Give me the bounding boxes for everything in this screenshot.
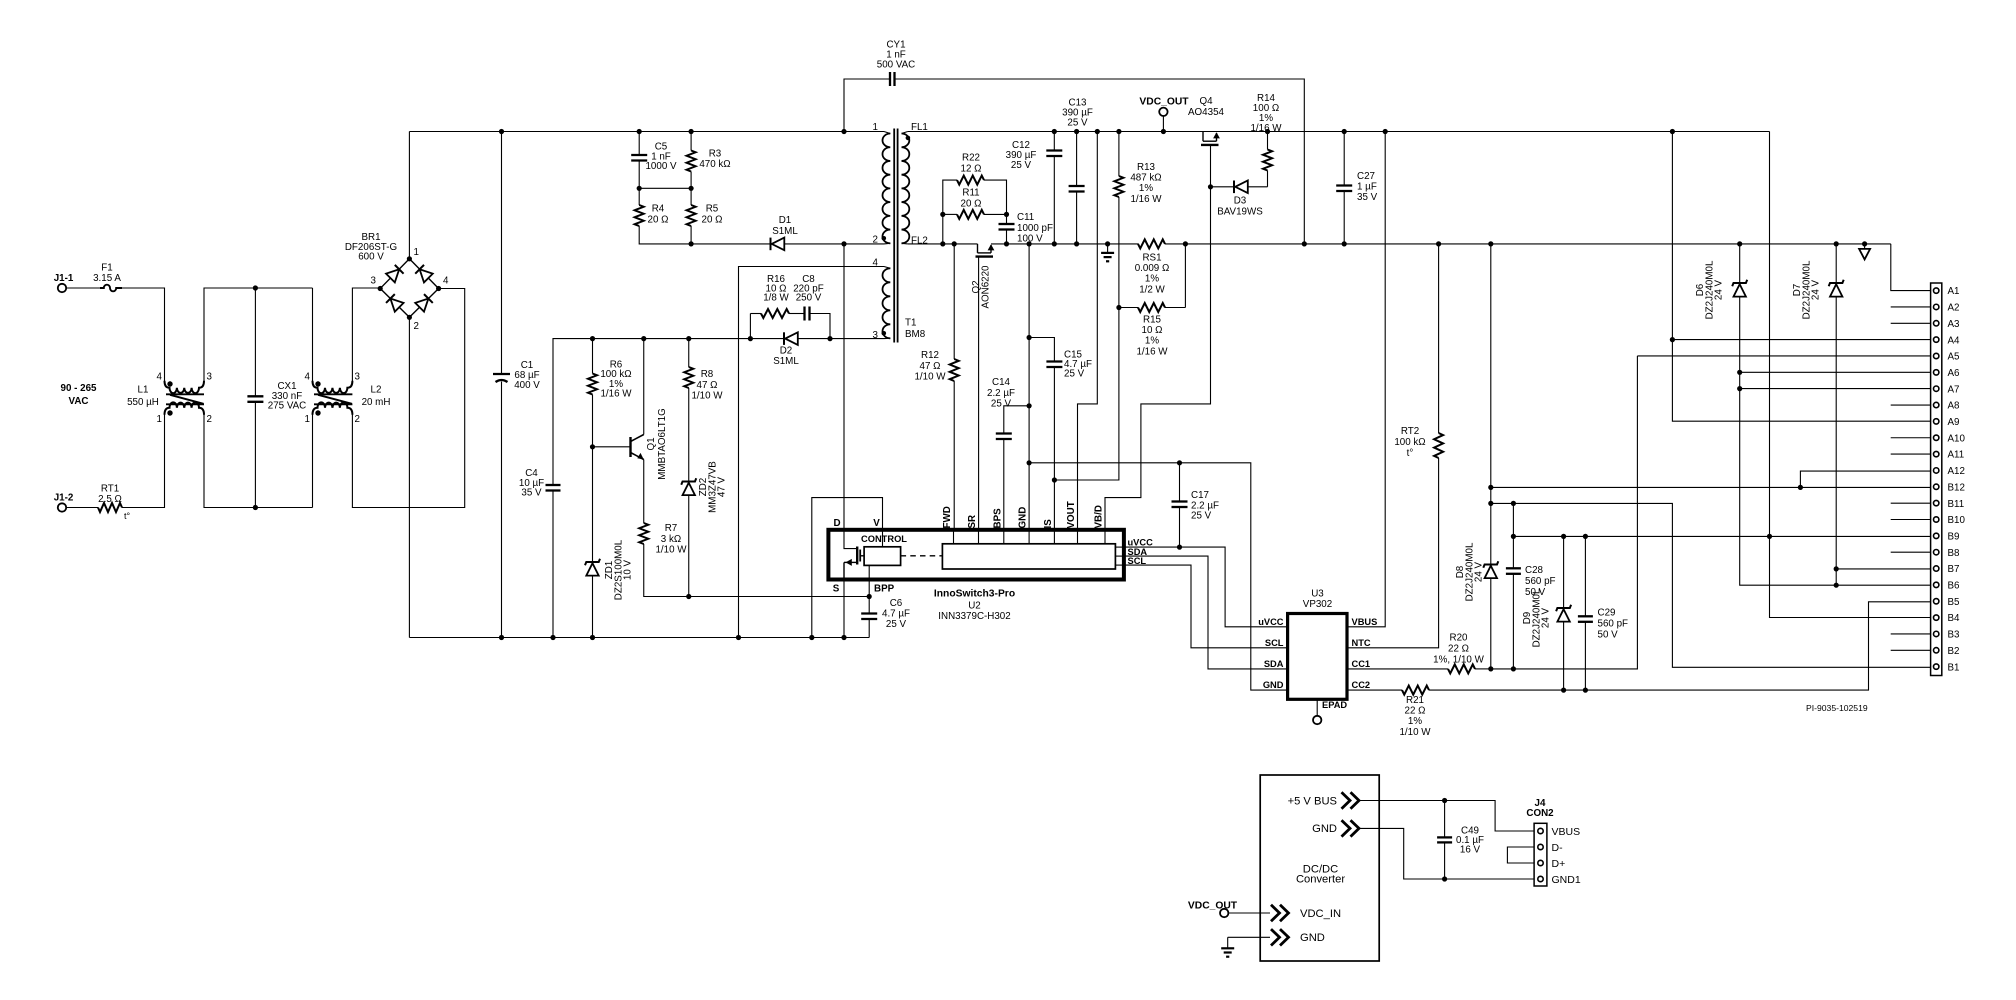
node CY1 tap: [841, 129, 846, 134]
inductor L2 bottom winding: [313, 402, 353, 414]
svg-text:1: 1: [414, 247, 419, 258]
L2 polarity dot pin1: [315, 410, 320, 415]
node CY1 to GND rail: [1302, 241, 1307, 246]
IC U2 control box: [864, 547, 901, 566]
node C28 at B9: [1511, 534, 1516, 539]
U3 pin label CC1: [1352, 659, 1371, 669]
wire T1 pin1 hook: [884, 132, 890, 134]
wire F1 to L1 pin4: [122, 288, 165, 381]
svg-text:D-: D-: [1552, 842, 1564, 854]
node C1 top: [499, 129, 504, 134]
svg-text:2: 2: [207, 414, 212, 425]
wire D7 upper: [1835, 244, 1837, 283]
svg-text:SDA: SDA: [1264, 659, 1284, 669]
wire C1 lower: [501, 382, 503, 638]
label R4 value: [648, 204, 669, 226]
label L1 pin4: [157, 372, 163, 383]
wire stub pin B8: [1891, 551, 1931, 553]
wire rail end to B9/B4: [1770, 132, 1931, 618]
U2 label CONTROL: [861, 534, 907, 544]
node C12 bottom: [1052, 241, 1057, 246]
label T1 FL1: [911, 122, 928, 133]
resistor R3: [687, 132, 696, 189]
label Q4 value: [1188, 96, 1225, 118]
label 90-265 VAC: [61, 383, 98, 407]
node D7 at GND rail: [1834, 241, 1839, 246]
svg-text:487 kΩ: 487 kΩ: [1130, 173, 1161, 184]
label C6 value: [882, 598, 910, 630]
svg-text:1/16 W: 1/16 W: [1136, 346, 1168, 357]
U2 pin label VB/D: [1094, 505, 1105, 528]
wire U2 pin SCL exit: [1115, 564, 1124, 566]
svg-text:20 Ω: 20 Ω: [961, 198, 982, 209]
label C29 value: [1598, 608, 1629, 641]
svg-text:R21: R21: [1406, 695, 1424, 706]
svg-text:1%, 1/10 W: 1%, 1/10 W: [1433, 655, 1484, 666]
node C12 top: [1052, 129, 1057, 134]
pin label A12: [1948, 466, 1965, 477]
diode D3: [1234, 181, 1248, 194]
svg-text:CC1: CC1: [1352, 659, 1371, 669]
wire U2 pin uVCC exit: [1115, 546, 1124, 548]
connector pin B1: [1934, 664, 1939, 669]
wire C17 upper: [1179, 463, 1181, 502]
U2 pin label SDA: [1128, 547, 1148, 557]
svg-text:1000 V: 1000 V: [645, 161, 677, 172]
node VBUS riser top: [1383, 129, 1388, 134]
svg-text:U2: U2: [968, 601, 981, 612]
resistor R5: [687, 188, 696, 244]
wire U2 pin GND entry: [1028, 530, 1030, 544]
U3 pin label GND: [1263, 680, 1284, 690]
wire C12 upper: [1053, 132, 1055, 151]
zener D6: [1732, 280, 1747, 297]
svg-text:Converter: Converter: [1296, 874, 1345, 886]
wire R22 right: [984, 180, 1007, 224]
zener D7: [1829, 280, 1844, 297]
U2 pin label VOUT: [1066, 501, 1077, 528]
J4 pin label VBUS: [1552, 826, 1581, 838]
node snubber mid left: [637, 186, 642, 191]
inductor L2 core: [314, 394, 352, 404]
label D6 value: [1695, 260, 1725, 319]
pin label B5: [1948, 597, 1961, 608]
svg-text:R5: R5: [706, 204, 719, 215]
wire C15 branch: [1029, 338, 1054, 362]
wire C8 right: [810, 314, 831, 339]
thermistor RT1: [98, 503, 122, 512]
svg-text:35 V: 35 V: [1357, 192, 1378, 203]
svg-text:1/16 W: 1/16 W: [1130, 194, 1162, 205]
label U2 ref: [938, 601, 1010, 622]
svg-text:1: 1: [873, 122, 878, 133]
svg-text:B1: B1: [1948, 662, 1960, 673]
U2 pin label S: [833, 584, 840, 595]
wire CC2 line: [1429, 602, 1931, 690]
connector pin A11: [1934, 451, 1939, 456]
wire B9 line: [1513, 535, 1930, 537]
svg-text:1/2 W: 1/2 W: [1139, 284, 1165, 295]
node D6 at A6: [1737, 370, 1742, 375]
wire stub pin B3: [1891, 633, 1931, 635]
J4 pin label D-: [1552, 842, 1564, 854]
label D7 value: [1792, 260, 1822, 319]
BR1 pin3 node: [378, 286, 383, 291]
BR1 pin1 node: [407, 256, 412, 261]
svg-text:GND: GND: [1263, 680, 1284, 690]
wire C49 upper: [1444, 801, 1446, 838]
node B9 at VBUS drop: [1767, 534, 1772, 539]
svg-text:50 V: 50 V: [1598, 630, 1619, 641]
wire ZD2 upper: [688, 388, 690, 482]
pin label B8: [1948, 548, 1961, 559]
svg-text:D2: D2: [780, 346, 793, 357]
svg-text:R12: R12: [921, 350, 939, 361]
pin label A11: [1948, 450, 1965, 461]
label D1 value: [772, 215, 798, 237]
svg-text:B11: B11: [1948, 499, 1965, 510]
svg-text:25 V: 25 V: [886, 619, 907, 630]
svg-text:560 pF: 560 pF: [1525, 576, 1556, 587]
svg-text:R22: R22: [962, 153, 980, 164]
svg-text:L2: L2: [371, 385, 382, 396]
svg-text:R20: R20: [1450, 633, 1469, 644]
wire T1 pin2 hook: [884, 242, 890, 245]
svg-text:25 V: 25 V: [991, 399, 1012, 410]
IC U2 outline: [828, 530, 1124, 580]
wire VB/D route: [1105, 187, 1211, 530]
svg-text:600 V: 600 V: [358, 252, 384, 263]
U3 pin label SDA: [1264, 659, 1284, 669]
wire ZD2 lower: [688, 495, 690, 596]
wire bias rail: [553, 339, 884, 485]
svg-text:J1-1: J1-1: [54, 273, 74, 284]
svg-text:3.15 A: 3.15 A: [93, 273, 121, 284]
label T1 name: [905, 318, 926, 341]
thermistor RT2: [1434, 433, 1443, 458]
svg-text:GND: GND: [1300, 932, 1325, 944]
svg-text:4.7 µF: 4.7 µF: [882, 608, 910, 619]
connector J4 pin D-: [1538, 844, 1543, 849]
svg-text:3: 3: [371, 276, 377, 287]
wire DCDC GND in: [1228, 936, 1270, 938]
wire CC2 to R21: [1347, 689, 1402, 691]
wire primary GND rail: [409, 637, 869, 639]
wire D6 lower: [1740, 297, 1931, 586]
terminal J1-2: [58, 503, 66, 511]
connector pin A6: [1934, 370, 1939, 375]
wire U2 pin SDA exit: [1115, 555, 1124, 557]
svg-text:D+: D+: [1552, 858, 1566, 870]
svg-text:A7: A7: [1948, 384, 1960, 395]
svg-text:1 µF: 1 µF: [1357, 181, 1377, 192]
svg-text:GND: GND: [1312, 823, 1337, 835]
connector J4 body: [1534, 823, 1547, 886]
connector pin B4: [1934, 615, 1939, 620]
resistor R12: [950, 244, 959, 530]
svg-text:T1: T1: [905, 318, 916, 329]
node CC2 at C29: [1583, 688, 1588, 693]
wire VDC_IN: [1228, 912, 1270, 914]
wire L1 pin3 up: [204, 288, 313, 381]
svg-text:4: 4: [443, 276, 449, 287]
wire GND riser: [1028, 244, 1030, 530]
pin label B11: [1948, 499, 1965, 510]
pin label A2: [1948, 303, 1960, 314]
node D6 at GND rail: [1737, 241, 1742, 246]
node C27 bottom: [1342, 241, 1347, 246]
node CC1 at C28: [1511, 666, 1516, 671]
J4 pin label D+: [1552, 858, 1566, 870]
svg-text:InnoSwitch3-Pro: InnoSwitch3-Pro: [934, 589, 1015, 600]
node D7 at B6: [1834, 583, 1839, 588]
wire C49 lower: [1444, 842, 1446, 879]
svg-text:SCL: SCL: [1265, 638, 1284, 648]
svg-text:24 V: 24 V: [1474, 561, 1485, 582]
label VDC_OUT bottom: [1188, 901, 1238, 912]
pin label B6: [1948, 581, 1961, 592]
label R7 value: [655, 523, 687, 556]
capacitor CY1: [890, 72, 895, 86]
IC U3 outline: [1288, 614, 1347, 700]
resistor R16: [750, 309, 789, 318]
label PI-9035-102519: [1806, 703, 1868, 713]
node R16 left bottom: [748, 336, 753, 341]
L2 polarity dot pin4: [315, 381, 320, 386]
svg-text:S1ML: S1ML: [773, 356, 799, 367]
connector J4 pin VBUS: [1538, 828, 1543, 833]
node C11 bottom: [1004, 241, 1009, 246]
svg-text:C14: C14: [992, 377, 1011, 388]
label C28 value: [1525, 565, 1556, 598]
node R6 top: [590, 336, 595, 341]
label R8 value: [691, 369, 723, 402]
wire C28 upper: [1512, 503, 1514, 568]
connector pin A8: [1934, 402, 1939, 407]
svg-text:R3: R3: [709, 149, 722, 160]
svg-text:+5 V BUS: +5 V BUS: [1288, 795, 1337, 807]
node gnd arrow: [1862, 241, 1867, 246]
svg-text:A2: A2: [1948, 303, 1960, 314]
wire R13 to IS link: [1054, 197, 1119, 480]
pin label B10: [1948, 515, 1966, 526]
svg-text:25 V: 25 V: [1064, 369, 1085, 380]
U2 dashed link: [901, 555, 943, 557]
svg-text:Q4: Q4: [1199, 96, 1213, 107]
svg-text:3: 3: [355, 372, 361, 383]
wire stub pin B10: [1891, 519, 1931, 521]
svg-text:B12: B12: [1948, 482, 1965, 493]
svg-text:10 V: 10 V: [623, 559, 634, 580]
svg-text:C27: C27: [1357, 171, 1375, 182]
node RT2 top: [1436, 241, 1441, 246]
svg-text:S1ML: S1ML: [772, 226, 798, 237]
wire D8 vertical upper: [1490, 244, 1492, 565]
node C14 branch: [1027, 403, 1032, 408]
node R15 riser top: [1183, 241, 1188, 246]
node C17 bottom: [1177, 545, 1182, 550]
svg-text:F1: F1: [101, 263, 112, 274]
wire C4 lower: [552, 491, 554, 638]
DCDC pin label GND in: [1300, 932, 1325, 944]
wire T1 FL2 hook: [902, 242, 908, 245]
svg-text:A12: A12: [1948, 466, 1965, 477]
wire V pin: [812, 498, 883, 638]
wire DCDC GND out: [1359, 828, 1534, 879]
node ZD1 bottom: [590, 635, 595, 640]
svg-text:35 V: 35 V: [521, 488, 542, 499]
label DC/DC converter: [1296, 863, 1345, 885]
label J1-1: [54, 273, 74, 284]
wire C28 lower: [1512, 574, 1514, 669]
zener D8: [1483, 561, 1498, 578]
resistor R14: [1263, 132, 1272, 171]
svg-text:1000 pF: 1000 pF: [1017, 223, 1053, 234]
label C8 value: [793, 274, 824, 304]
wire L1 pin2 to CX1: [204, 415, 313, 508]
pin label A9: [1948, 417, 1960, 428]
svg-text:C11: C11: [1017, 212, 1034, 223]
wire D pin: [844, 244, 857, 549]
wire U2 pin VB/D entry: [1104, 530, 1106, 544]
T1 bias polarity dot: [882, 331, 887, 336]
node D7 at B7: [1834, 566, 1839, 571]
wire C17 lower: [1179, 507, 1181, 547]
wire stub pin A3: [1891, 322, 1931, 324]
node R15 left: [1116, 305, 1121, 310]
capacitor C4: [546, 485, 561, 491]
svg-text:1/8 W: 1/8 W: [763, 293, 789, 304]
svg-text:VBUS: VBUS: [1552, 826, 1581, 838]
node C4 bottom: [550, 635, 555, 640]
wire R11 right: [984, 213, 1007, 215]
wire C27 upper: [1343, 132, 1345, 186]
BR1 pin4 node: [436, 286, 441, 291]
node at A4: [1670, 337, 1675, 342]
node C15 branch: [1027, 335, 1032, 340]
label R6 value: [600, 360, 632, 400]
svg-text:3 kΩ: 3 kΩ: [661, 534, 681, 545]
label C49 value: [1456, 826, 1484, 856]
wire D8 lower: [1490, 578, 1492, 669]
svg-text:VBUS: VBUS: [1352, 617, 1378, 627]
connector pin B2: [1934, 648, 1939, 653]
svg-text:0.009 Ω: 0.009 Ω: [1135, 263, 1170, 274]
svg-text:R13: R13: [1137, 162, 1156, 173]
wire R14 bottom: [1267, 171, 1269, 187]
wire CX1 lower: [254, 402, 256, 508]
label T1 pin1: [873, 122, 878, 133]
svg-text:INN3379C-H302: INN3379C-H302: [938, 611, 1010, 622]
label T1 pin3: [873, 330, 879, 341]
DCDC pin label GND out: [1312, 823, 1337, 835]
label C27 value: [1357, 171, 1378, 203]
DC/DC converter box: [1260, 775, 1379, 961]
capacitor C6: [861, 614, 877, 620]
wire C14 branch: [1004, 406, 1029, 434]
pin label A8: [1948, 401, 1961, 412]
label R20 value: [1433, 633, 1484, 666]
node IS link: [1052, 477, 1057, 482]
svg-text:B3: B3: [1948, 630, 1961, 641]
svg-text:MMBTAO6LT1G: MMBTAO6LT1G: [657, 408, 668, 480]
resistor R21: [1402, 686, 1429, 695]
wire SCL route: [1124, 565, 1288, 648]
svg-text:1%: 1%: [1145, 336, 1159, 347]
label L2 pin1: [305, 414, 310, 425]
label C17 value: [1191, 490, 1219, 522]
wire Q1 collector: [643, 339, 645, 435]
pin label A10: [1948, 433, 1966, 444]
svg-text:2: 2: [873, 235, 878, 246]
node C8 right bottom: [827, 336, 832, 341]
wire IS line: [1053, 367, 1055, 530]
capacitor C15: [1046, 362, 1062, 368]
svg-text:1/10 W: 1/10 W: [655, 545, 687, 556]
ground arrow secondary: [1859, 244, 1870, 260]
fuse F1: [100, 285, 122, 292]
capacitor C11: [999, 224, 1015, 230]
svg-text:22 Ω: 22 Ω: [1405, 706, 1426, 717]
label L2 pin2: [355, 414, 360, 425]
resistor R8: [684, 339, 693, 388]
label BR1 pin3: [371, 276, 377, 287]
svg-text:GND1: GND1: [1552, 874, 1581, 886]
U2 pin label IS: [1043, 519, 1054, 529]
node gnd secondary: [1105, 241, 1110, 246]
wire B7 line: [1836, 568, 1930, 570]
node D8 at B12: [1488, 485, 1493, 490]
wire A6 line: [1740, 371, 1931, 373]
wire Q1 base: [593, 446, 631, 448]
svg-text:2.5 Ω: 2.5 Ω: [98, 494, 122, 505]
svg-text:3: 3: [873, 330, 879, 341]
svg-text:AO4354: AO4354: [1188, 107, 1225, 118]
resistor R20: [1448, 664, 1491, 673]
resistor R13: [1114, 132, 1123, 198]
node C13 top: [1074, 129, 1079, 134]
svg-text:1: 1: [305, 414, 310, 425]
svg-text:R7: R7: [665, 523, 678, 534]
wire R15 riser: [1184, 244, 1186, 308]
U2 pin label SCL: [1128, 556, 1147, 566]
node VDC_OUT tap: [1161, 129, 1166, 134]
svg-text:25 V: 25 V: [1191, 511, 1212, 522]
inductor L1 bottom winding: [165, 402, 205, 414]
wire VBUS to A4/A9: [1672, 132, 1930, 422]
label CY1 value: [877, 40, 915, 71]
node FWD tap: [952, 241, 957, 246]
wire J1-2 to RT1: [66, 507, 98, 509]
node C27 top: [1342, 129, 1347, 134]
svg-text:24 V: 24 V: [1714, 279, 1725, 300]
connector pin A4: [1934, 337, 1939, 342]
T1 secondary polarity dot: [906, 136, 911, 141]
label T1 pin2: [873, 235, 878, 246]
wire A4 line: [1672, 339, 1930, 341]
label R15 value: [1136, 315, 1168, 358]
wire C12 lower: [1053, 156, 1055, 244]
resistor R11: [943, 210, 984, 219]
transistor Q2: [976, 244, 995, 530]
label VDC_OUT: [1139, 97, 1189, 108]
wire primary DC+ rail: [409, 131, 884, 133]
wire BR1 pin1 to DC rail: [408, 132, 410, 259]
connector pin B11: [1934, 500, 1939, 505]
node CC1 at D8: [1488, 666, 1493, 671]
svg-text:AON6220: AON6220: [981, 265, 992, 309]
wire VBUS riser: [1347, 132, 1385, 627]
